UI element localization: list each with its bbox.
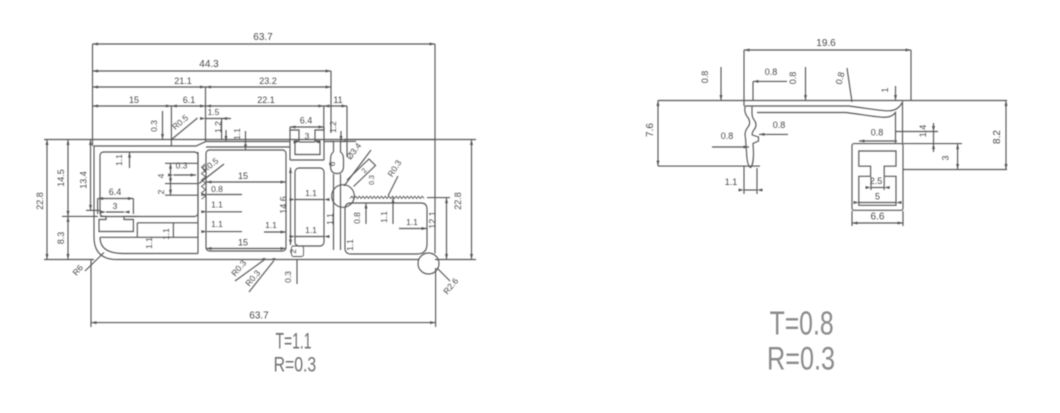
svg-text:6: 6 xyxy=(327,161,337,166)
svg-text:3: 3 xyxy=(941,155,951,160)
svg-text:1.1: 1.1 xyxy=(725,177,738,187)
svg-text:11: 11 xyxy=(333,95,342,105)
dim 15 / 6.1 / 22.1 / 11 xyxy=(93,105,348,107)
svg-text:1.1: 1.1 xyxy=(265,220,277,230)
svg-text:1.1: 1.1 xyxy=(144,237,154,249)
svg-text:1.1: 1.1 xyxy=(406,217,418,227)
svg-text:0.8: 0.8 xyxy=(788,72,798,85)
svg-text:0.8: 0.8 xyxy=(352,212,362,224)
extension lines left xyxy=(44,259,94,261)
svg-text:T=0.8: T=0.8 xyxy=(770,305,834,342)
dim 6.4 left slot xyxy=(98,198,134,200)
dim 1.5 xyxy=(206,118,232,120)
bottom edge with R6 corner xyxy=(94,237,419,260)
svg-text:6.1: 6.1 xyxy=(183,95,196,105)
svg-text:6.4: 6.4 xyxy=(109,187,122,197)
keyhole column walls xyxy=(333,174,335,250)
svg-text:1.1: 1.1 xyxy=(211,200,223,210)
bottom-left interior walls xyxy=(100,236,198,238)
svg-text:15: 15 xyxy=(129,95,139,105)
dim 12.1 xyxy=(446,198,448,260)
bottom dim 63.7 xyxy=(90,260,92,328)
boss circle with slanted slot xyxy=(332,185,355,208)
svg-text:0.8: 0.8 xyxy=(700,71,710,84)
dim 21.1 / 23.2 xyxy=(93,86,332,88)
svg-text:4: 4 xyxy=(156,173,166,178)
svg-text:3: 3 xyxy=(305,131,310,141)
left profile outer outline xyxy=(94,130,334,237)
svg-text:0.8: 0.8 xyxy=(765,67,778,77)
svg-text:0.8: 0.8 xyxy=(871,128,884,138)
dim 19.6 xyxy=(744,49,911,51)
dim 15 bottom xyxy=(206,248,286,250)
svg-text:1.1: 1.1 xyxy=(211,219,223,229)
svg-text:21.1: 21.1 xyxy=(174,76,192,86)
bottom-right ball R2.6 xyxy=(418,253,439,274)
svg-text:7.6: 7.6 xyxy=(645,123,656,137)
svg-text:8.3: 8.3 xyxy=(56,232,66,245)
svg-text:0.8: 0.8 xyxy=(211,184,223,194)
top-left chamber xyxy=(100,152,198,217)
svg-text:6.6: 6.6 xyxy=(871,212,885,223)
left profile drawing xyxy=(35,32,476,377)
svg-text:1.1: 1.1 xyxy=(345,239,355,251)
svg-text:5: 5 xyxy=(875,192,880,202)
svg-text:3: 3 xyxy=(113,201,118,211)
left T-slot channel xyxy=(99,216,137,231)
svg-text:0.8: 0.8 xyxy=(721,131,734,141)
svg-text:63.7: 63.7 xyxy=(253,32,273,43)
dim 3 left slot xyxy=(106,211,124,213)
extension lines top xyxy=(92,44,94,146)
serrated inner wall left of center chamber xyxy=(202,164,206,199)
dim 14.6 xyxy=(290,168,292,246)
svg-text:1.5: 1.5 xyxy=(208,107,220,117)
dim 63.7 top xyxy=(93,43,436,45)
svg-text:1: 1 xyxy=(880,87,890,92)
svg-text:63.7: 63.7 xyxy=(249,311,269,322)
svg-text:15: 15 xyxy=(238,171,248,181)
svg-text:1.1: 1.1 xyxy=(114,154,124,166)
svg-text:1.2: 1.2 xyxy=(328,121,338,133)
svg-text:2: 2 xyxy=(288,249,298,254)
dim 6.4 over block xyxy=(290,126,324,128)
hook left xyxy=(745,106,751,168)
svg-text:2: 2 xyxy=(156,189,166,194)
dim 44.3 xyxy=(93,70,332,72)
svg-text:44.3: 44.3 xyxy=(199,59,219,70)
long top extension line xyxy=(658,100,1007,102)
svg-text:1.1: 1.1 xyxy=(161,228,171,240)
svg-text:1.1: 1.1 xyxy=(305,188,317,198)
tiny R0.3 bumps on bottom edge xyxy=(262,258,276,259)
right box (screw channel) xyxy=(852,144,903,211)
right profile drawing xyxy=(645,38,1008,377)
lip inner line xyxy=(206,146,290,148)
svg-text:23.2: 23.2 xyxy=(259,76,277,86)
svg-text:22.8: 22.8 xyxy=(453,192,463,210)
svg-text:22.1: 22.1 xyxy=(257,95,275,105)
bottom right chamber xyxy=(345,203,427,254)
dim 8.3 xyxy=(67,216,69,259)
profile top walls xyxy=(745,102,903,143)
svg-text:R=0.3: R=0.3 xyxy=(767,341,835,377)
long horizontal extension line y=139.5 xyxy=(44,139,476,141)
serration knurl xyxy=(350,196,424,198)
dim 15 top inside xyxy=(206,181,286,183)
dim 14.5 xyxy=(67,140,69,217)
dim 22.8 left xyxy=(46,140,48,260)
svg-text:8.2: 8.2 xyxy=(992,130,1003,144)
svg-text:14.5: 14.5 xyxy=(56,169,66,187)
svg-text:R=0.3: R=0.3 xyxy=(274,353,317,377)
svg-text:1.1: 1.1 xyxy=(325,213,335,225)
svg-text:6.4: 6.4 xyxy=(300,116,313,126)
small box dim 2 xyxy=(292,246,304,257)
dim 6.6 xyxy=(852,222,903,224)
svg-text:1.2: 1.2 xyxy=(213,121,223,133)
svg-text:1.1: 1.1 xyxy=(305,225,317,235)
svg-text:0.3: 0.3 xyxy=(176,161,188,171)
svg-text:12.1: 12.1 xyxy=(428,211,438,229)
center chamber 15 x 14.6 xyxy=(206,150,286,251)
dim 7.6 xyxy=(657,101,659,167)
svg-text:1.1: 1.1 xyxy=(379,211,389,223)
svg-text:1.1: 1.1 xyxy=(232,128,242,140)
svg-text:15: 15 xyxy=(238,238,248,248)
right column chamber xyxy=(295,168,324,246)
svg-text:0.3: 0.3 xyxy=(149,120,159,132)
svg-text:14.6: 14.6 xyxy=(279,196,289,214)
T-block lower walls xyxy=(289,142,291,161)
dim 8.2 xyxy=(1005,101,1007,170)
svg-text:2.5: 2.5 xyxy=(870,176,883,186)
svg-text:0.8: 0.8 xyxy=(773,120,786,130)
svg-text:0.3: 0.3 xyxy=(369,175,376,185)
dim 22.8 right xyxy=(471,140,473,260)
dim 13.4 xyxy=(90,140,92,211)
svg-text:13.4: 13.4 xyxy=(79,171,89,189)
svg-text:22.8: 22.8 xyxy=(35,192,45,210)
dim 3 over block slot xyxy=(299,141,315,143)
svg-text:19.6: 19.6 xyxy=(816,38,836,49)
svg-text:0.3: 0.3 xyxy=(283,271,293,283)
svg-text:T=1.1: T=1.1 xyxy=(276,329,312,354)
